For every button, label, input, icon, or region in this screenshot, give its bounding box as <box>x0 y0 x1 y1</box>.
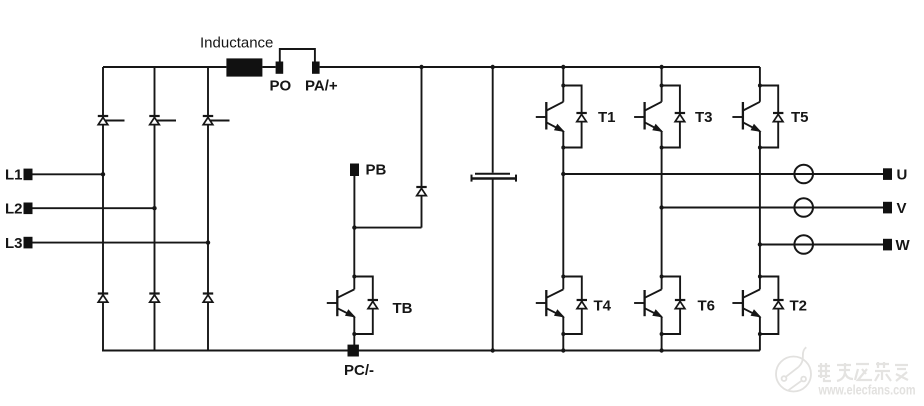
svg-text:PO: PO <box>270 78 292 95</box>
svg-text:L2: L2 <box>5 201 23 218</box>
node W <box>758 242 762 246</box>
wire output V <box>662 207 883 209</box>
svg-text:www.elecfans.com: www.elecfans.com <box>818 383 916 398</box>
node bottom bus / leg1 <box>561 348 565 352</box>
terminal W <box>883 239 892 251</box>
wire rectifier leg 2 <box>154 67 156 351</box>
node L3 <box>206 240 210 244</box>
output circle V <box>794 198 813 217</box>
rectifier diode D6 (bottom leg3) <box>203 294 213 303</box>
wire TB collector <box>353 228 355 277</box>
node L2 <box>152 206 156 210</box>
node bottom bus / leg2 <box>659 348 663 352</box>
wire output W <box>760 244 883 246</box>
wire capacitor branch top <box>492 67 494 173</box>
terminal V <box>883 202 892 214</box>
terminal L2 <box>24 203 33 215</box>
svg-text:T5: T5 <box>791 109 809 126</box>
inductor <box>226 58 262 76</box>
output circle U <box>794 165 813 184</box>
transistor T4 <box>536 275 587 337</box>
wire bottom bus <box>102 350 760 352</box>
svg-text:TB: TB <box>393 300 413 317</box>
rectifier diode D4 (bottom leg1) <box>98 294 108 303</box>
svg-text:T2: T2 <box>790 298 808 315</box>
terminal PA/+ <box>312 62 320 74</box>
watermark logo <box>776 347 811 391</box>
wire capacitor branch bottom <box>492 180 494 351</box>
terminal PO <box>276 62 284 74</box>
node bottom bus / capacitor <box>491 348 495 352</box>
node L1 <box>101 172 105 176</box>
svg-text:V: V <box>897 200 907 217</box>
output circle W <box>794 235 813 254</box>
svg-text:T6: T6 <box>698 298 716 315</box>
wire PO-PA jumper <box>280 49 315 62</box>
node top bus / leg2 <box>659 65 663 69</box>
svg-text:T4: T4 <box>594 298 612 315</box>
wire top bus <box>103 66 760 68</box>
node U <box>561 172 565 176</box>
node top bus / brake branch <box>419 65 423 69</box>
svg-text:PC/-: PC/- <box>344 362 374 379</box>
transistor T5 <box>732 84 783 150</box>
watermark chinese text <box>818 362 908 381</box>
terminal PC/- <box>348 345 359 357</box>
wire inverter leg 1 <box>562 67 564 351</box>
rectifier diode D2 (top leg2, with gate line) <box>149 116 176 125</box>
svg-text:PB: PB <box>366 162 387 179</box>
svg-text:W: W <box>896 237 911 254</box>
wire output U <box>563 173 883 175</box>
node top bus / leg1 <box>561 65 565 69</box>
svg-text:L3: L3 <box>5 235 23 252</box>
svg-text:Inductance: Inductance <box>200 35 273 52</box>
transistor TB <box>327 275 378 337</box>
rectifier diode D3 (top leg3, with gate line) <box>203 116 230 125</box>
transistor T1 <box>536 84 587 150</box>
svg-text:PA/+: PA/+ <box>305 78 338 95</box>
transistor T2 <box>732 275 783 337</box>
wire brake diode branch <box>421 67 423 228</box>
terminal PB <box>350 164 359 177</box>
terminal U <box>883 168 892 180</box>
transistor T3 <box>634 84 685 150</box>
rectifier diode D1 (top leg1, with gate line) <box>98 116 125 125</box>
svg-text:T1: T1 <box>598 109 616 126</box>
node PB junction <box>352 225 356 229</box>
wire PB branch <box>354 176 421 228</box>
transistor T6 <box>634 275 685 337</box>
wire TB emitter to PC <box>353 334 355 351</box>
wire rectifier leg 1 <box>102 67 104 351</box>
wire inverter leg 2 <box>661 67 663 351</box>
wire L1 <box>33 173 104 175</box>
node V <box>659 205 663 209</box>
svg-text:U: U <box>897 167 908 184</box>
brake diode <box>416 187 426 196</box>
wire L2 <box>33 207 155 209</box>
svg-text:L1: L1 <box>5 167 23 184</box>
wire inverter leg 3 <box>759 67 761 351</box>
wire L3 <box>33 242 209 244</box>
terminal L3 <box>24 237 33 249</box>
svg-text:T3: T3 <box>695 109 713 126</box>
rectifier diode D5 (bottom leg2) <box>149 294 159 303</box>
terminal L1 <box>24 169 33 181</box>
capacitor C1 plates <box>472 174 517 182</box>
wire rectifier leg 3 <box>207 67 209 351</box>
node top bus / capacitor <box>491 65 495 69</box>
